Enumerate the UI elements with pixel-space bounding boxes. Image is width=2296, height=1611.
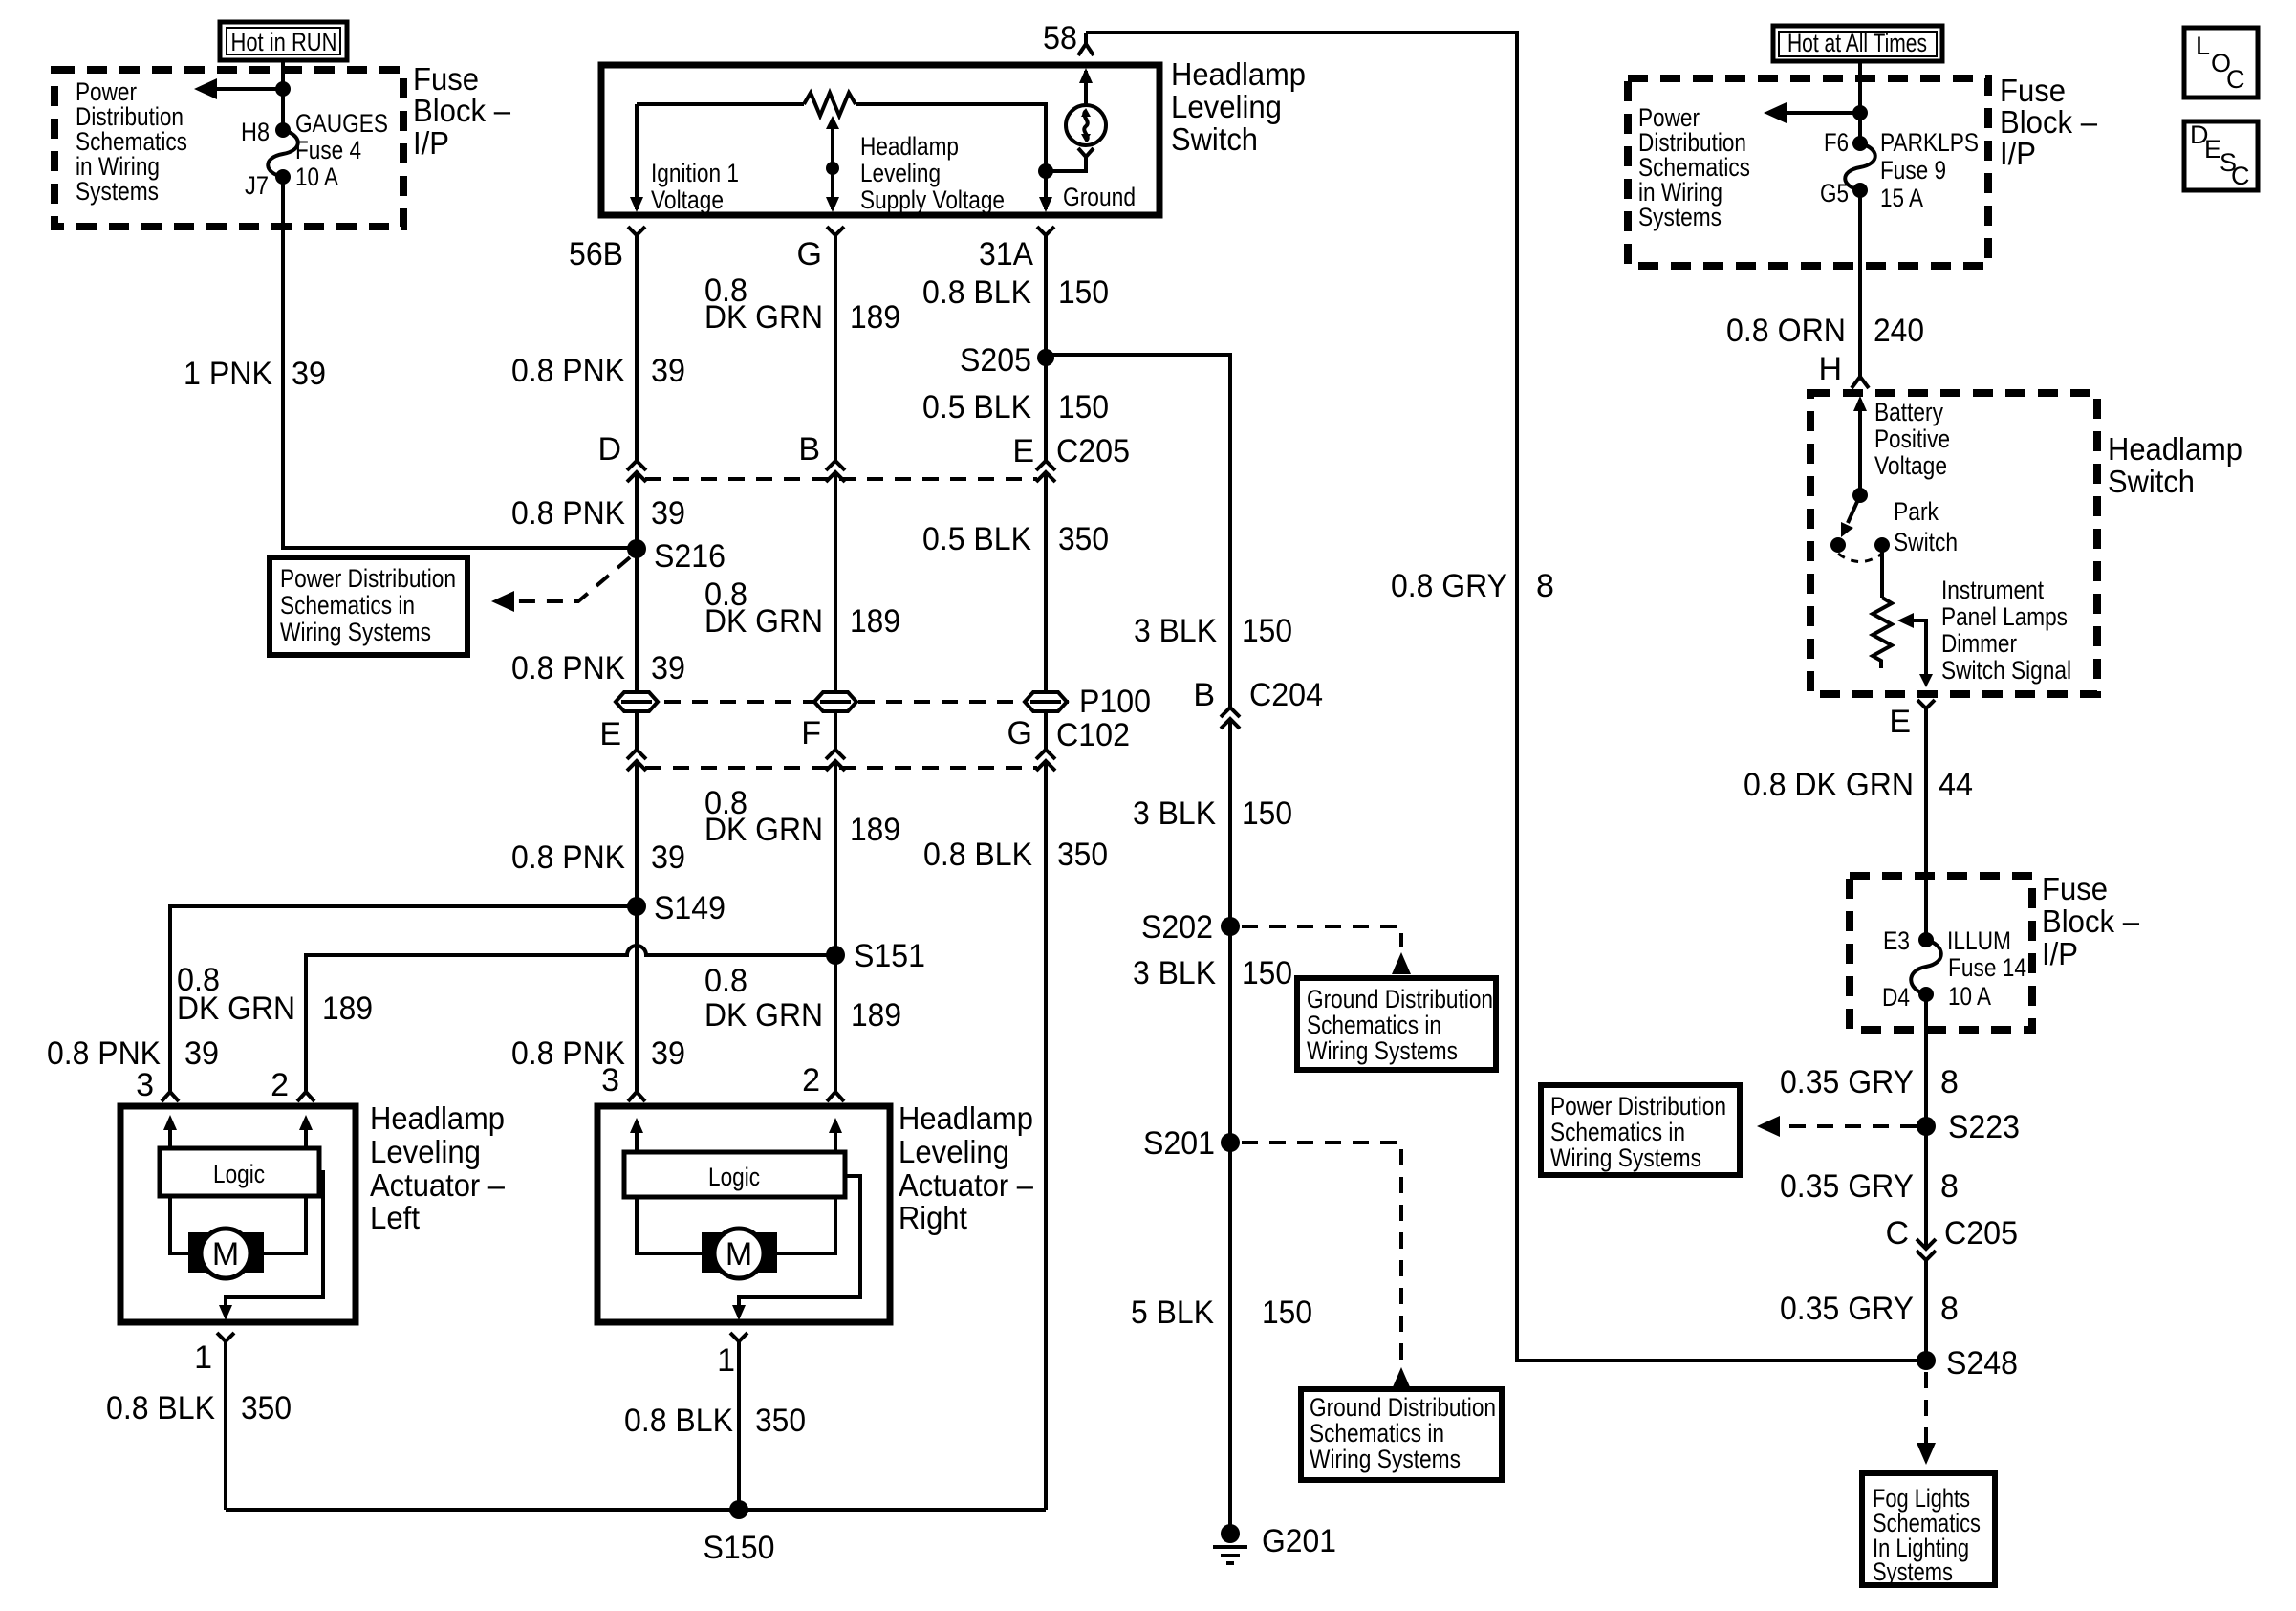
svg-text:GAUGES: GAUGES (295, 109, 388, 138)
label Instrument Panel Lamps Dimmer Switch Signal (1941, 576, 2071, 685)
svg-text:Leveling: Leveling (899, 1134, 1009, 1169)
svg-text:0.8 GRY: 0.8 GRY (1391, 568, 1507, 604)
ground G201 (1213, 1523, 1336, 1563)
label Headlamp Leveling Switch (1171, 56, 1306, 157)
connector Y pin E below switch (1917, 700, 1935, 713)
svg-text:Wiring Systems: Wiring Systems (1550, 1143, 1701, 1172)
svg-text:240: 240 (1874, 313, 1924, 349)
splice S223 (1917, 1109, 2020, 1145)
svg-text:G: G (1007, 715, 1032, 751)
svg-text:0.8 PNK: 0.8 PNK (511, 353, 625, 389)
value 0.8 PNK 39 (right actuator pin 3) (511, 1035, 685, 1072)
wire 0.8 BLK 150/350 column (ground) (1044, 240, 1048, 1510)
svg-text:Park: Park (1894, 497, 1939, 526)
logic module (left) (160, 1148, 319, 1196)
connector Y right actuator pin 1 (730, 1333, 747, 1346)
svg-text:Headlamp: Headlamp (899, 1100, 1033, 1136)
svg-text:3 BLK: 3 BLK (1133, 795, 1216, 832)
svg-text:1: 1 (194, 1339, 212, 1376)
motor M (right) (702, 1229, 777, 1278)
svg-text:0.8 BLK: 0.8 BLK (922, 274, 1031, 311)
svg-text:Fuse: Fuse (2000, 73, 2066, 108)
wire: ignition 1 voltage internal (637, 104, 804, 209)
svg-text:350: 350 (755, 1403, 806, 1439)
label Ignition 1 Voltage (651, 159, 739, 214)
svg-text:F6: F6 (1824, 128, 1849, 157)
svg-text:0.8: 0.8 (704, 963, 747, 999)
svg-text:C102: C102 (1056, 717, 1130, 753)
wire logic to pin 1 (right) (732, 1176, 860, 1320)
note: Power Distribution Schematics in Wiring Systems (top left fuse block) (76, 77, 187, 206)
svg-text:0.8 PNK: 0.8 PNK (511, 839, 625, 876)
svg-text:Wiring Systems: Wiring Systems (1307, 1036, 1458, 1065)
label Fuse Block - I/P (ILLUM) (2042, 871, 2140, 971)
wire: lamp top to pin 58 (1084, 71, 1088, 105)
arrow down ignition exit (630, 197, 643, 212)
splice S150 (704, 1500, 775, 1566)
value 1 PNK 39 (184, 356, 326, 392)
svg-text:58: 58 (1043, 20, 1077, 56)
fuse F14 ILLUM Fuse 14 10A (1911, 932, 1941, 1002)
fuse block I/P (ILLUM) dashed box (1850, 876, 2032, 1030)
svg-text:39: 39 (651, 353, 685, 389)
connector P100 pin F lens (814, 692, 856, 711)
value 0.5 BLK 350 (922, 521, 1109, 557)
value 0.35 GRY 8 (above S223) (1780, 1064, 1959, 1100)
dashed arrow S216 to power distribution (491, 557, 630, 612)
svg-text:150: 150 (1058, 274, 1109, 311)
svg-text:Voltage: Voltage (1874, 451, 1947, 480)
svg-text:DK GRN: DK GRN (704, 812, 823, 848)
connector Y supply exit below box (827, 227, 844, 240)
svg-text:I/P: I/P (2000, 136, 2036, 171)
svg-text:Schematics in: Schematics in (1310, 1419, 1444, 1448)
arrow up pin 58 exit (1079, 68, 1093, 83)
wire: lamp to ground junction (1046, 163, 1086, 171)
svg-text:0.35 GRY: 0.35 GRY (1780, 1168, 1914, 1205)
icon DESC (2184, 120, 2258, 190)
svg-text:E: E (599, 716, 621, 752)
svg-text:189: 189 (850, 299, 900, 336)
wire logic to motor left side (right act) (637, 1197, 704, 1253)
svg-text:Fuse 9: Fuse 9 (1880, 156, 1946, 185)
value GAUGES Fuse 4 10 A (295, 109, 388, 191)
svg-text:44: 44 (1939, 767, 1973, 803)
svg-text:Block –: Block – (2000, 104, 2098, 140)
svg-text:Wiring Systems: Wiring Systems (1310, 1445, 1461, 1473)
wire: resistor to ground node (856, 104, 1046, 209)
svg-text:189: 189 (851, 997, 901, 1034)
connector Y left actuator pin 3 (162, 1092, 179, 1101)
switch blade (headlamp switch) (1830, 495, 1890, 562)
value 0.8 DK GRN 189 (below C102) (704, 785, 900, 848)
resistor: panel lamps dimmer rheostat (1873, 598, 1892, 668)
label "Hot in RUN" (220, 22, 347, 60)
splice S205 (960, 342, 1054, 379)
svg-text:Block –: Block – (2042, 903, 2140, 939)
svg-text:Systems: Systems (1638, 203, 1722, 231)
arrow to power distribution schematics (194, 78, 291, 99)
splice S202 (1141, 909, 1240, 946)
value 0.8 DK GRN 189 (below S216) (704, 577, 900, 640)
svg-text:Ground: Ground (1063, 183, 1136, 211)
svg-text:39: 39 (292, 356, 326, 392)
wire 1 PNK 39 from J7 down and right to S216 (283, 177, 637, 548)
motor M (left) (188, 1229, 264, 1278)
svg-text:3: 3 (601, 1062, 619, 1099)
label Headlamp Leveling Actuator - Right (899, 1100, 1034, 1235)
svg-text:Switch: Switch (2108, 464, 2195, 499)
connector Y right actuator pin 3 (628, 1092, 645, 1101)
svg-text:0.5 BLK: 0.5 BLK (922, 389, 1031, 425)
wire right actuator pin 1 down (737, 1346, 741, 1510)
connector Y pin 58 above box (1078, 33, 1094, 55)
svg-text:0.35 GRY: 0.35 GRY (1780, 1291, 1914, 1327)
headlamp leveling switch box (601, 65, 1159, 215)
svg-text:Panel Lamps: Panel Lamps (1941, 602, 2068, 631)
svg-text:189: 189 (322, 991, 373, 1027)
svg-text:3 BLK: 3 BLK (1134, 613, 1217, 649)
svg-text:C: C (2231, 162, 2250, 190)
value 0.8 GRY 8 (1391, 568, 1554, 604)
svg-text:M: M (212, 1236, 239, 1273)
svg-text:150: 150 (1262, 1295, 1312, 1331)
svg-text:S150: S150 (704, 1530, 775, 1566)
svg-text:Fuse 4: Fuse 4 (295, 136, 361, 164)
arrow into logic pin 2 (right) (829, 1118, 842, 1152)
value 0.8 BLK 350 (ground column) (923, 837, 1108, 873)
svg-text:Ground Distribution: Ground Distribution (1310, 1393, 1496, 1422)
connector C204 pin B (1221, 708, 1240, 729)
svg-text:P100: P100 (1079, 684, 1151, 720)
value 0.8 PNK 39 (below C205) (511, 495, 685, 532)
splice S201 (1143, 1125, 1240, 1162)
value ILLUM Fuse 14 10 A (1947, 926, 2026, 1011)
svg-text:Switch Signal: Switch Signal (1941, 656, 2071, 685)
wire left actuator pin 1 down (224, 1346, 227, 1510)
svg-text:S205: S205 (960, 342, 1031, 379)
svg-text:39: 39 (184, 1035, 219, 1072)
svg-text:B: B (1193, 677, 1215, 713)
connector C102 row dashed link (645, 766, 1037, 770)
fuse F4 GAUGES Fuse 4 10A (268, 122, 298, 185)
connector P100 row dashed link (637, 700, 1074, 704)
svg-text:I/P: I/P (2042, 936, 2078, 971)
svg-text:2: 2 (802, 1062, 820, 1099)
svg-text:D: D (597, 431, 621, 468)
logic module (right) (624, 1152, 845, 1197)
svg-text:S202: S202 (1141, 909, 1213, 946)
svg-text:Fuse: Fuse (2042, 871, 2108, 906)
wire logic to motor right side (right act) (775, 1197, 835, 1253)
svg-text:DK GRN: DK GRN (704, 997, 823, 1034)
value 0.8 ORN 240 (1726, 313, 1924, 349)
svg-text:S216: S216 (654, 538, 726, 575)
svg-text:Fuse: Fuse (413, 61, 479, 97)
arrow into logic pin 2 (left) (299, 1115, 313, 1148)
svg-text:56B: 56B (569, 236, 623, 272)
svg-text:15 A: 15 A (1880, 184, 1923, 212)
svg-text:DK GRN: DK GRN (704, 299, 823, 336)
wire 0.8 PNK 39 column (ignition feed) (635, 240, 639, 1091)
svg-text:Leveling: Leveling (860, 159, 941, 187)
wire 0.8 DK GRN 44 (1924, 713, 1928, 940)
connector Y pin H (1852, 377, 1869, 388)
fuse F9 PARKLPS Fuse 9 15A (1845, 136, 1875, 198)
svg-text:Systems: Systems (1873, 1557, 1953, 1586)
value 0.8 DK GRN 189 (right actuator pin 2) (704, 963, 901, 1034)
svg-text:8: 8 (1940, 1291, 1959, 1327)
wire 0.35 GRY 8 (C205 to S248) (1924, 1260, 1928, 1361)
svg-text:0.5 BLK: 0.5 BLK (922, 521, 1031, 557)
svg-text:B: B (798, 431, 820, 468)
wire battery positive voltage into switch (1852, 396, 1868, 503)
arrow into logic pin 3 (right) (630, 1118, 643, 1152)
headlamp leveling actuator - left box (120, 1106, 356, 1322)
svg-text:Headlamp: Headlamp (1171, 56, 1306, 92)
value 0.8 DK GRN 189 (above C205) (704, 272, 900, 336)
svg-text:Headlamp: Headlamp (370, 1100, 505, 1136)
icon LOC (2184, 28, 2258, 98)
svg-text:0.8 PNK: 0.8 PNK (511, 650, 625, 686)
svg-text:E: E (1889, 704, 1911, 740)
svg-text:350: 350 (1058, 521, 1109, 557)
svg-text:Headlamp: Headlamp (2108, 431, 2242, 467)
wire S149 branch to left actuator pin 3 (170, 906, 637, 1091)
svg-text:Headlamp: Headlamp (860, 132, 959, 161)
value 0.8 PNK 39 (above P100) (511, 650, 685, 686)
svg-text:39: 39 (651, 650, 685, 686)
splice S149 (627, 890, 726, 926)
svg-text:Actuator –: Actuator – (899, 1167, 1034, 1203)
wire 0.8 DK GRN 189 column (supply) (834, 240, 837, 1091)
svg-text:Fuse 14: Fuse 14 (1948, 953, 2026, 982)
svg-text:0.8 DK GRN: 0.8 DK GRN (1744, 767, 1914, 803)
label Fuse Block - I/P (top right) (2000, 73, 2098, 171)
connector C205 pin E (1036, 461, 1055, 482)
svg-text:E: E (1012, 433, 1034, 469)
svg-text:Supply Voltage: Supply Voltage (860, 185, 1005, 214)
connector C205 pin D (627, 461, 646, 482)
svg-text:39: 39 (651, 1035, 685, 1072)
splice S151 (826, 938, 925, 974)
svg-text:Schematics in: Schematics in (1307, 1011, 1441, 1039)
connector C102 pin E (627, 750, 646, 771)
svg-text:DK GRN: DK GRN (177, 991, 295, 1027)
connector Y left actuator pin 1 (217, 1333, 234, 1346)
svg-text:Hot at All Times: Hot at All Times (1787, 29, 1927, 57)
dashed arrow S201 to ground distribution note (1242, 1143, 1411, 1389)
note: Power Distribution Schematics in Wiring Systems (right) (1541, 1085, 1740, 1175)
svg-text:Systems: Systems (76, 177, 159, 206)
wire park switch to dimmer rheostat (1880, 545, 1884, 598)
svg-text:S151: S151 (854, 938, 925, 974)
svg-text:S223: S223 (1948, 1109, 2020, 1145)
svg-text:Hot in RUN: Hot in RUN (231, 28, 337, 56)
svg-text:1 PNK: 1 PNK (184, 356, 272, 392)
headlamp switch dashed box (1810, 393, 2097, 694)
svg-text:Dimmer: Dimmer (1941, 629, 2017, 658)
value 0.8 DK GRN 44 (1744, 767, 1973, 803)
svg-text:Actuator –: Actuator – (370, 1167, 506, 1203)
node: ground junction (1038, 163, 1053, 179)
svg-text:ILLUM: ILLUM (1947, 926, 2011, 955)
svg-text:150: 150 (1242, 955, 1292, 991)
wire logic to pin 1 (left) (219, 1172, 323, 1320)
svg-text:39: 39 (651, 495, 685, 532)
svg-text:Wiring Systems: Wiring Systems (280, 618, 431, 646)
arrow into logic pin 3 (left) (163, 1115, 177, 1148)
svg-text:150: 150 (1242, 795, 1292, 832)
arrow down ground exit (1039, 197, 1052, 212)
svg-text:C: C (2226, 65, 2245, 94)
value 0.8 BLK 350 (left) (106, 1390, 292, 1426)
svg-text:Left: Left (370, 1200, 420, 1235)
value 3 BLK 150 (below C204) (1133, 795, 1292, 832)
svg-text:Ground Distribution: Ground Distribution (1307, 985, 1493, 1013)
svg-text:39: 39 (651, 839, 685, 876)
svg-text:D4: D4 (1882, 983, 1910, 1012)
svg-text:C: C (1885, 1215, 1909, 1252)
svg-text:Ignition 1: Ignition 1 (651, 159, 739, 187)
label Headlamp Leveling Actuator - Left (370, 1100, 506, 1235)
fuse block I/P (top right) dashed box (1628, 78, 1988, 266)
value 0.8 DK GRN 189 (left actuator pin 2) (177, 962, 373, 1027)
svg-text:G5: G5 (1820, 179, 1849, 207)
svg-text:S201: S201 (1143, 1125, 1215, 1162)
svg-text:I/P: I/P (413, 125, 449, 161)
wire: Hot in RUN feed down to fuse (281, 60, 285, 130)
connector C102 pin G (1036, 750, 1055, 771)
svg-text:G201: G201 (1262, 1523, 1336, 1559)
svg-text:350: 350 (1057, 837, 1108, 873)
headlamp leveling actuator - right box (597, 1106, 890, 1322)
wire 0.8 ORN 240 (1858, 190, 1862, 377)
svg-text:350: 350 (241, 1390, 292, 1426)
value 0.8 BLK 350 (right) (624, 1403, 806, 1439)
value 0.8 BLK 150 (above S205) (922, 274, 1109, 311)
svg-text:0.8 ORN: 0.8 ORN (1726, 313, 1846, 349)
svg-text:1: 1 (717, 1342, 735, 1379)
wiper: supply voltage output (826, 116, 839, 212)
note: Fog Lights Schematics In Lighting Systems (1862, 1473, 1995, 1586)
svg-text:10 A: 10 A (295, 163, 338, 191)
svg-text:C204: C204 (1249, 677, 1323, 713)
arrow to power distribution schematics (right) (1764, 102, 1868, 123)
connector C205 pin C (1917, 1239, 1936, 1260)
value 3 BLK 150 (below S202) (1133, 955, 1292, 991)
svg-text:8: 8 (1940, 1064, 1959, 1100)
label Battery Positive Voltage (1874, 398, 1950, 480)
connector Y lamp lower (1078, 148, 1094, 163)
svg-text:Voltage: Voltage (651, 185, 724, 214)
dashed arrow S202 to ground distribution note (1242, 926, 1411, 974)
svg-text:3: 3 (136, 1067, 154, 1103)
value 0.8 PNK 39 (above C205) (511, 353, 685, 389)
connector P100 pin E lens (616, 692, 658, 711)
svg-text:Switch: Switch (1894, 528, 1958, 556)
svg-text:0.8 BLK: 0.8 BLK (624, 1403, 733, 1439)
svg-text:S248: S248 (1946, 1345, 2018, 1382)
svg-text:10 A: 10 A (1948, 982, 1991, 1011)
svg-text:Schematics in: Schematics in (280, 591, 415, 620)
note: Ground Distribution Schematics in Wiring Systems (lower) (1301, 1389, 1502, 1480)
lamp: leveling switch illumination lamp (1066, 105, 1106, 145)
svg-text:150: 150 (1058, 389, 1109, 425)
svg-text:Schematics in: Schematics in (1550, 1118, 1685, 1146)
value 0.8 PNK 39 (above S149) (511, 839, 685, 876)
connector C102 pin F (826, 750, 845, 771)
label Headlamp Switch (2108, 431, 2242, 499)
svg-text:5 BLK: 5 BLK (1131, 1295, 1214, 1331)
splice S216 (627, 538, 726, 575)
splice S248 (1917, 1345, 2018, 1382)
svg-text:L: L (2196, 32, 2210, 60)
wire 0.35 GRY 8 (fuse to S223) (1924, 994, 1928, 1249)
label "Hot at All Times" (1773, 26, 1942, 61)
wire: Hot at All Times feed to fuse F9 (1858, 61, 1862, 143)
wire S151 branch to left actuator pin 2 (hop over PNK wire) (306, 946, 835, 1091)
svg-text:Positive: Positive (1874, 425, 1950, 453)
svg-text:M: M (726, 1236, 752, 1273)
wiper arrow dimmer output (1897, 613, 1933, 687)
wire S205 branch to ground distribution column (1046, 355, 1230, 708)
value PARKLPS Fuse 9 15 A (1880, 128, 1979, 212)
svg-text:E3: E3 (1883, 926, 1910, 955)
svg-text:8: 8 (1940, 1168, 1959, 1205)
resistor: leveling switch potentiometer (804, 93, 856, 116)
svg-text:0.8 BLK: 0.8 BLK (923, 837, 1032, 873)
dashed arrow S223 to power distribution note (1757, 1116, 1917, 1137)
svg-text:Block –: Block – (413, 93, 511, 128)
wire ground distribution column below C204 (1228, 719, 1232, 1526)
svg-text:31A: 31A (979, 236, 1033, 272)
svg-text:PARKLPS: PARKLPS (1880, 128, 1979, 157)
svg-text:0.35 GRY: 0.35 GRY (1780, 1064, 1914, 1100)
value 5 BLK 150 (1131, 1295, 1312, 1331)
svg-text:Instrument: Instrument (1941, 576, 2044, 604)
wire logic to motor left side (170, 1196, 190, 1253)
svg-text:0.8 BLK: 0.8 BLK (106, 1390, 215, 1426)
svg-text:150: 150 (1242, 613, 1292, 649)
svg-text:H8: H8 (241, 118, 270, 146)
svg-text:Leveling: Leveling (370, 1134, 481, 1169)
dashed arrow S248 to fog lights note (1917, 1372, 1936, 1465)
fuse block I/P (top left) dashed box (54, 70, 403, 227)
svg-text:G: G (797, 236, 822, 272)
connector Y ground exit below box (1037, 227, 1054, 240)
svg-text:Battery: Battery (1874, 398, 1943, 426)
svg-text:Power Distribution: Power Distribution (1550, 1092, 1726, 1121)
svg-text:C205: C205 (1944, 1215, 2018, 1252)
note: Power Distribution Schematics in Wiring Systems (top right fuse block) (1638, 103, 1750, 231)
connector Y ignition exit below box (628, 227, 645, 240)
svg-text:Leveling: Leveling (1171, 89, 1282, 124)
value 0.35 GRY 8 (below C205) (1780, 1291, 1959, 1327)
label Fuse Block - I/P (top left) (413, 61, 511, 161)
svg-text:Right: Right (899, 1200, 967, 1235)
value 0.35 GRY 8 (below S223) (1780, 1168, 1959, 1205)
value 0.8 PNK 39 (left actuator pin 3) (47, 1035, 219, 1072)
svg-text:0.8 PNK: 0.8 PNK (511, 495, 625, 532)
svg-text:189: 189 (850, 603, 900, 640)
note: Ground Distribution Schematics in Wiring Systems (upper) (1297, 978, 1496, 1070)
connector C205 pin B (826, 461, 845, 482)
label Park Switch (1894, 497, 1958, 556)
svg-text:Power Distribution: Power Distribution (280, 564, 456, 593)
label Headlamp Leveling Supply Voltage (860, 132, 1005, 214)
note: Power Distribution Schematics in Wiring Systems (left) (270, 557, 467, 655)
